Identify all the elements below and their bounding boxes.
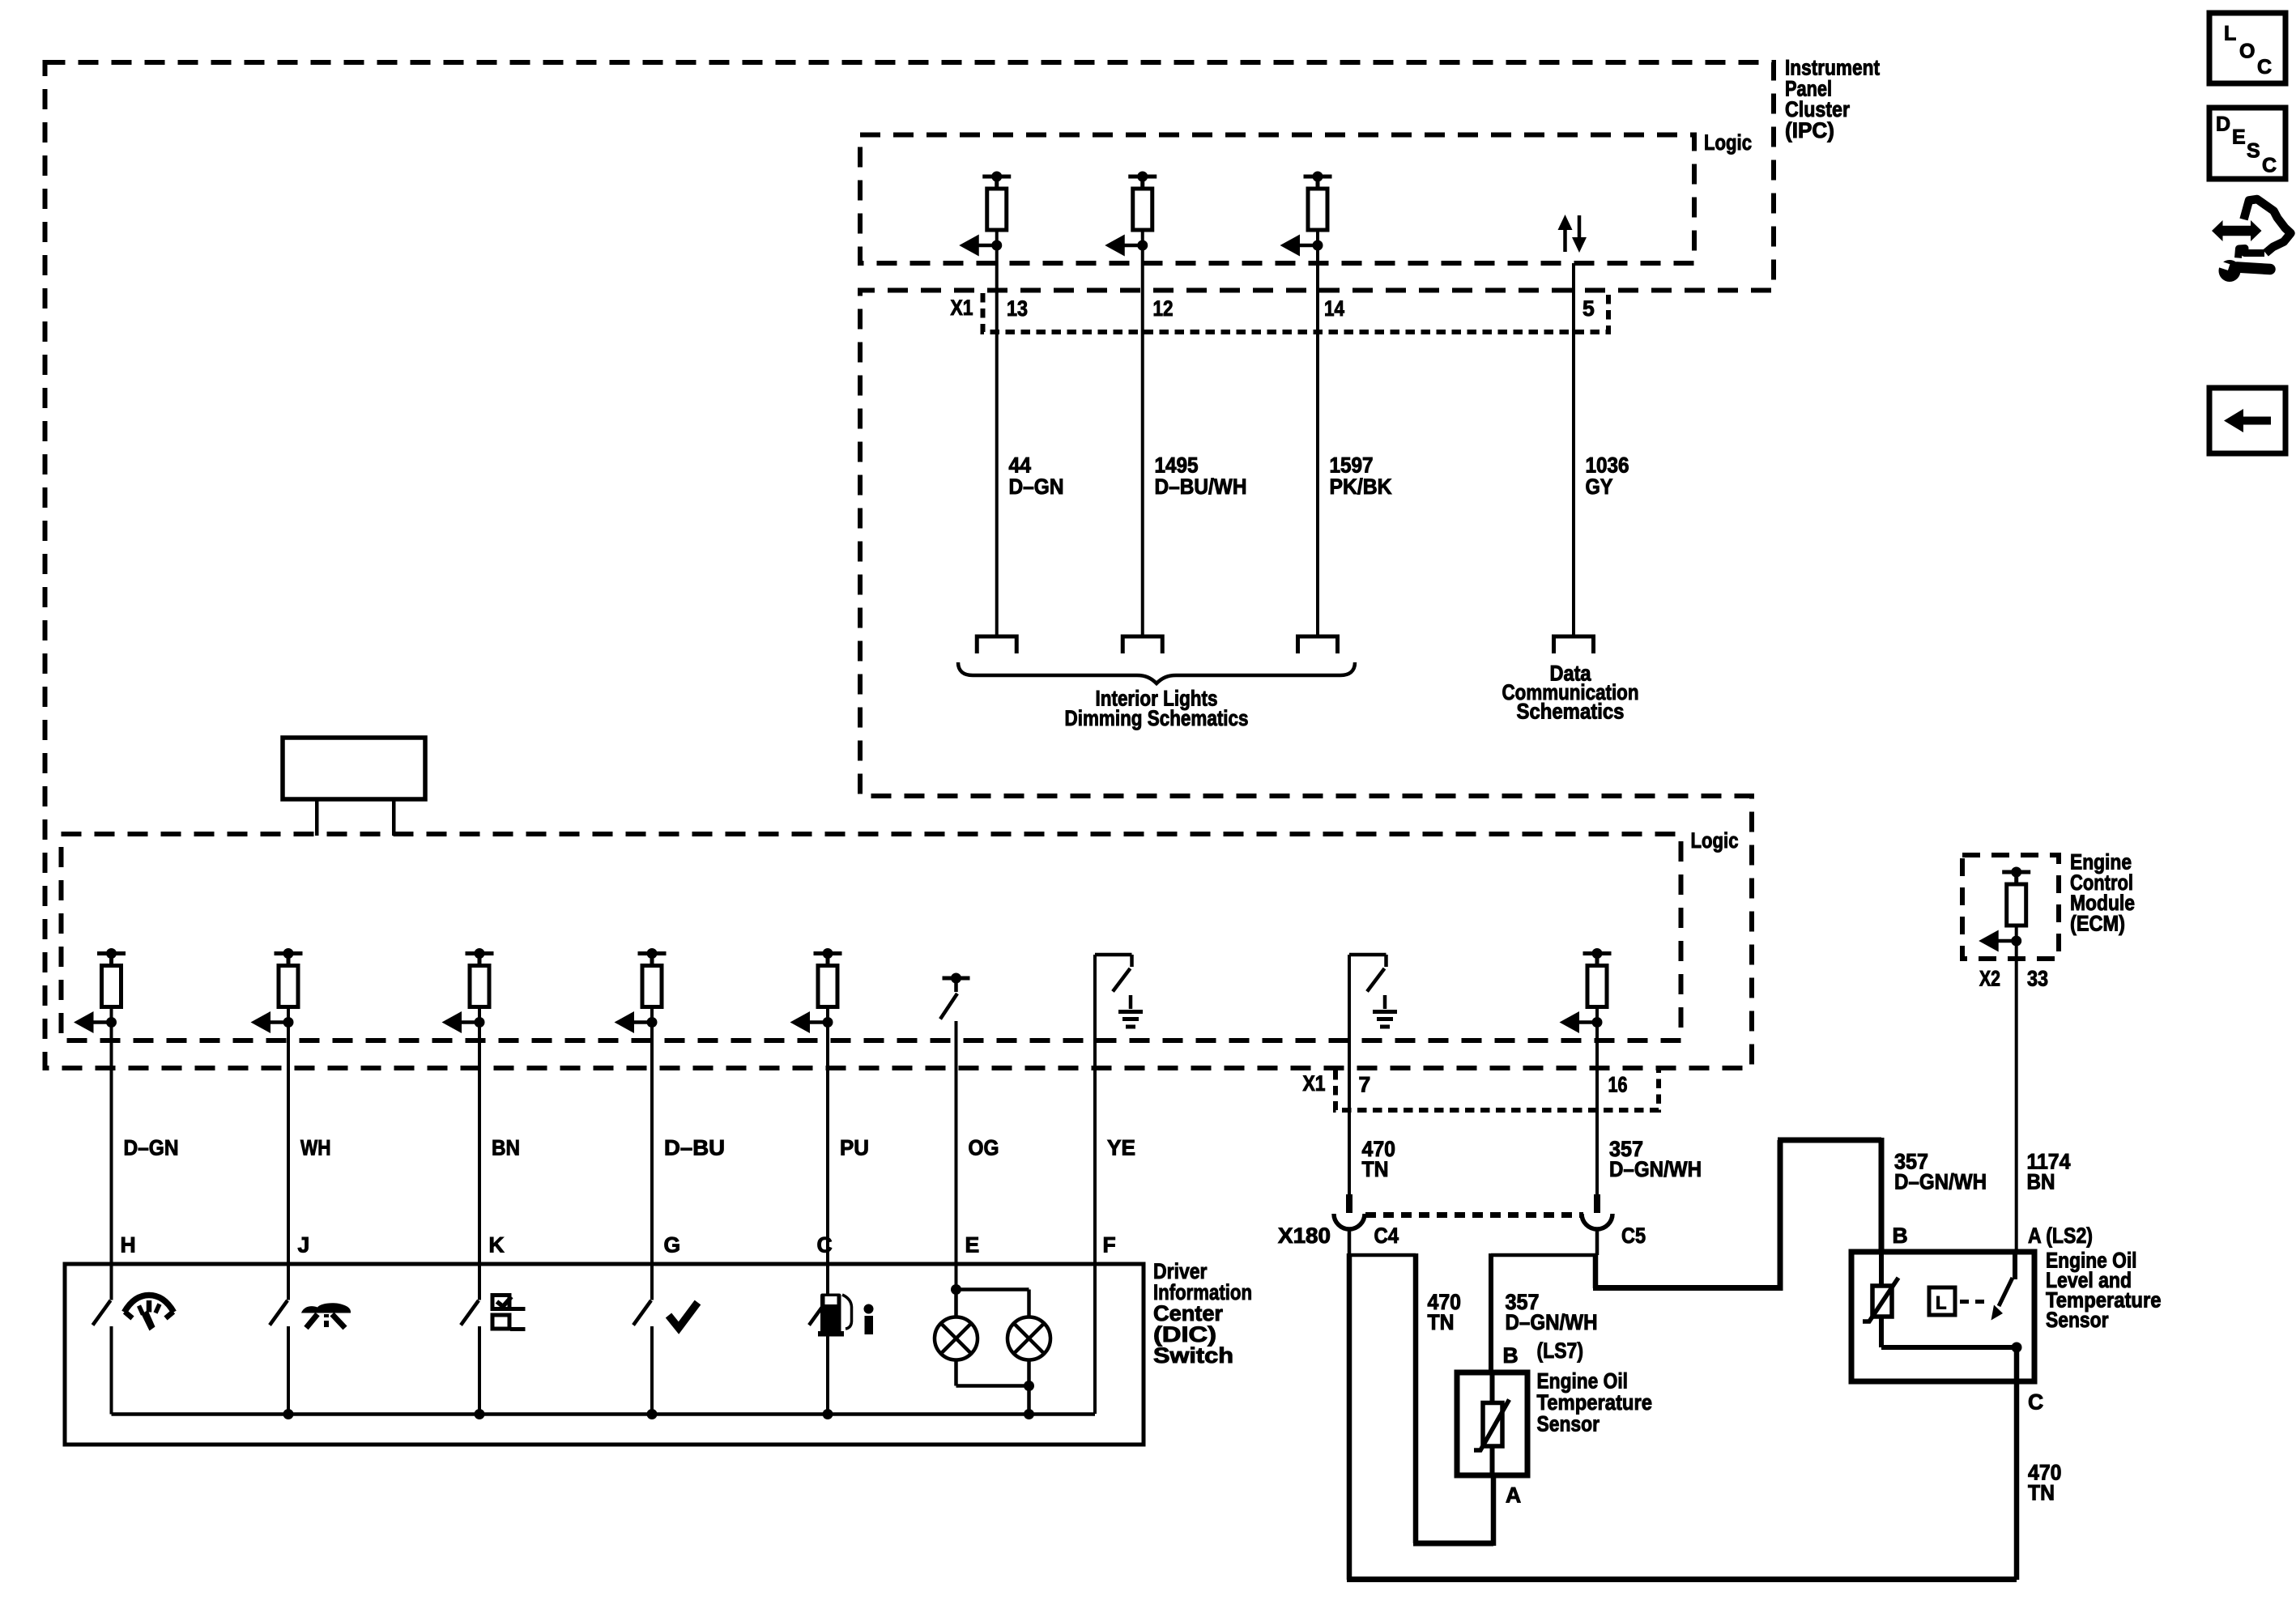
svg-text:D–GN/WH: D–GN/WH [1609,1157,1702,1181]
svg-text:D: D [2216,113,2230,136]
svg-text:7: 7 [1359,1073,1371,1097]
junction dot (bus G) [647,1409,658,1419]
oil level switch dashed link [1960,1300,1991,1304]
svg-text:K: K [489,1233,505,1257]
unlabeled module box above DIC logic [283,738,425,799]
wire C (PU) [826,1023,829,1300]
wire C5 tail [1595,1228,1600,1255]
svg-text:G: G [664,1233,681,1257]
svg-text:C: C [2262,155,2277,177]
svg-text:13: 13 [1007,296,1028,321]
svg-text:OG: OG [969,1135,999,1160]
connector X1 (IPC top) dotted box [983,293,1609,332]
svg-text:X180: X180 [1278,1223,1331,1248]
switch symbol (DIC E input) [943,977,970,981]
DIC switch C [809,1300,827,1326]
resistor (IPC pin 16) [1583,951,1612,955]
svg-text:PK/BK: PK/BK [1330,474,1392,499]
wire J (WH) [287,1023,290,1300]
lamp (E right) [1007,1317,1050,1360]
svg-text:Switch: Switch [1153,1343,1233,1368]
lamp (E left) [935,1317,978,1360]
svg-text:12: 12 [1153,296,1174,321]
resistor (ECM pin 33 pull-up) [2002,870,2030,874]
svg-text:Sensor: Sensor [2046,1308,2109,1332]
wire 357 D-GN/WH (C5 to LS2 B, elbow path) [1593,1255,1599,1288]
svg-text:F: F [1103,1233,1116,1257]
svg-text:D–BU: D–BU [664,1135,725,1160]
oil level switch blade [1999,1278,2013,1306]
svg-text:X2: X2 [1979,967,2000,991]
svg-text:14: 14 [1324,296,1344,321]
junction dot (bus E) [1024,1409,1034,1419]
IPC top Logic sub-box [860,135,1694,264]
wire C4 tail [1348,1228,1352,1255]
svg-text:C: C [2028,1390,2043,1415]
svg-text:(LS7): (LS7) [1537,1338,1584,1363]
LS2 internal bottom wire [1881,1345,2017,1350]
svg-text:B: B [1503,1343,1519,1368]
svg-text:A (LS2): A (LS2) [2028,1223,2093,1248]
wire F (YE) [1093,955,1097,1414]
svg-text:B: B [1893,1223,1908,1248]
DIC switch K [461,1300,479,1326]
svg-text:1597: 1597 [1330,453,1374,478]
svg-text:TN: TN [2028,1480,2055,1504]
svg-text:E: E [2232,126,2246,149]
IPC middle Logic sub-box [62,834,1681,1040]
thermistor (LS7) [1490,1372,1495,1402]
svg-text:TN: TN [1362,1157,1389,1181]
wire A into LS2 [2013,1252,2017,1279]
LOC reference box [2209,13,2285,83]
svg-text:X1: X1 [951,296,973,320]
svg-text:TN: TN [1428,1310,1455,1334]
DIC switch J [270,1300,288,1326]
svg-text:X1: X1 [1303,1071,1326,1096]
svg-text:PU: PU [840,1135,869,1160]
svg-text:Sensor: Sensor [1537,1412,1600,1436]
checklist icon (K) [492,1296,509,1309]
svg-text:1036: 1036 [1586,453,1629,478]
terminal C5 [1594,1194,1600,1213]
DIC switch lower stubs [110,1326,113,1415]
resistor (IPC pin 13 pull-up) [982,175,1011,179]
Engine Oil Level and Temperature Sensor box [1851,1252,2034,1381]
fuel pump + info icon (C) [820,1294,841,1333]
svg-text:C4: C4 [1374,1223,1399,1248]
svg-text:Dimming Schematics: Dimming Schematics [1065,706,1249,730]
svg-text:5: 5 [1582,296,1595,321]
thermistor (LS2) [1879,1252,1884,1286]
wire 470 TN (inner path to LS7 A) [1349,1253,1416,1257]
svg-text:44: 44 [1009,453,1032,478]
svg-text:D–GN/WH: D–GN/WH [1506,1310,1598,1334]
svg-text:L: L [1936,1293,1946,1313]
resistor (DIC K input) [466,951,494,955]
svg-text:D–GN/WH: D–GN/WH [1894,1169,1987,1194]
wire 1495 D-BU/WH (pin 12) [1141,245,1144,636]
back arrow box [2209,388,2285,453]
diagnostic connector icon (double arrow, connector outline, wrench) [2212,220,2262,241]
gauge icon (H) [125,1296,174,1313]
svg-text:BN: BN [492,1135,520,1160]
wire 470 TN (pin 7 to C4) [1348,955,1351,1194]
junction dot (bus J) [283,1409,294,1419]
wire 357 D-GN/WH (pin 16 to C5) [1595,1023,1599,1195]
terminal C4 [1346,1194,1352,1213]
svg-text:(IPC): (IPC) [1785,118,1834,143]
junction dot (LS2 internal) [2012,1343,2022,1353]
junction dot (E branch top) [951,1284,961,1295]
connector X180 dashed link [1365,1212,1583,1218]
svg-text:O: O [2239,40,2255,63]
junction dot (lamp bottom) [1024,1381,1034,1391]
wire 357 D-GN/WH (C5 to LS7 B) [1491,1253,1597,1257]
svg-text:16: 16 [1608,1073,1628,1097]
svg-text:J: J [298,1233,310,1257]
wire G (D-BU) [650,1023,654,1300]
svg-text:C5: C5 [1621,1223,1646,1248]
resistor (DIC J input) [275,951,303,955]
Engine Control Module (ECM) dashed box [1962,855,2059,959]
wire K (BN) [478,1023,481,1300]
svg-text:D–GN: D–GN [124,1135,179,1160]
back arrow [2224,409,2271,432]
Driver Information Center (DIC) Switch box [65,1264,1144,1445]
interior lamp icon (J) [301,1303,351,1313]
DIC ground bus [112,1412,1096,1416]
module box legs [315,799,319,836]
svg-text:33: 33 [2027,967,2048,991]
svg-text:YE: YE [1107,1135,1135,1160]
resistor (DIC G input) [638,951,667,955]
DIC switch G [633,1300,651,1326]
wire C out of LS2 [2014,1347,2020,1580]
lamp left feed [954,1290,958,1317]
junction dot (bus K) [475,1409,485,1419]
svg-text:D–GN: D–GN [1009,474,1064,499]
svg-text:WH: WH [300,1135,331,1160]
oil level switch box with L [1929,1287,1955,1315]
svg-text:Temperature: Temperature [1537,1390,1653,1415]
termination (wire 1597) [1298,636,1338,653]
wire 44 D-GN (pin 13) [995,245,999,636]
Engine Oil Temperature Sensor box [1457,1372,1527,1475]
termination (wire 1495) [1122,636,1162,653]
svg-text:E: E [965,1233,980,1257]
svg-text:C: C [2257,56,2272,79]
resistor (DIC C input) [814,951,842,955]
Instrument Panel Cluster (IPC) dashed outline [45,62,1774,1068]
svg-text:A: A [1506,1483,1521,1508]
svg-text:1495: 1495 [1155,453,1199,478]
svg-text:H: H [121,1233,136,1257]
resistor (DIC H input) [97,951,126,955]
wire 470 TN (C4 to LS2 C, outer path) [1347,1253,1352,1580]
svg-text:Schematics: Schematics [1517,700,1625,724]
wire 1036 GY (pin 5) [1572,263,1575,636]
svg-text:Engine Oil: Engine Oil [1537,1369,1629,1394]
resistor (IPC pin 12 pull-up) [1128,175,1157,179]
wire E (OG) [955,1021,958,1290]
svg-text:Logic: Logic [1704,130,1752,155]
DIC switch H [93,1300,111,1326]
switch to ground (IPC pin 7) [1349,953,1387,957]
wire H (D-GN) [110,1023,113,1300]
svg-text:S: S [2247,140,2260,163]
junction dot (bus C) [823,1409,833,1419]
wire 1174 BN (ECM 33 to LS2 A) [2015,941,2018,1252]
svg-text:L: L [2224,23,2236,45]
svg-text:BN: BN [2027,1169,2055,1194]
svg-text:Logic: Logic [1691,828,1739,853]
svg-text:C: C [817,1233,833,1257]
serial data up/down arrows (pin 5) [1563,229,1567,252]
checkmark icon (G) [669,1303,698,1329]
svg-text:D–BU/WH: D–BU/WH [1155,474,1247,499]
DESC reference box [2209,108,2285,179]
resistor (IPC pin 14 pull-up) [1304,175,1332,179]
svg-text:GY: GY [1586,474,1613,499]
termination (wire 1036) [1554,636,1594,653]
lamp branch top wire [956,1287,1029,1291]
lamp bottom wires [954,1360,958,1386]
brace (interior lights dimming) [958,662,1355,683]
switch to ground (DIC F input) [1095,953,1132,957]
svg-text:(ECM): (ECM) [2070,911,2125,935]
termination (wire 44) [977,636,1016,653]
wire 1597 PK/BK (pin 14) [1316,245,1319,636]
connector X1 (IPC bottom) dotted box [1335,1070,1659,1110]
